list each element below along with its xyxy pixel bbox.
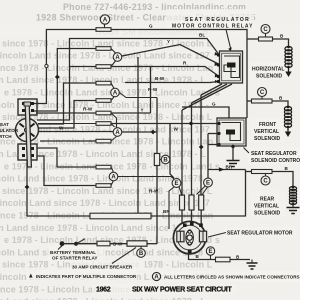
svg-text:B-W: B-W [155,76,165,81]
svg-text:SEAT REGULATOR: SEAT REGULATOR [185,17,250,23]
svg-text:Y: Y [141,108,144,113]
svg-text:A: A [103,18,108,24]
svg-text:SEAT REGULATOR MOTOR: SEAT REGULATOR MOTOR [227,231,293,237]
svg-text:W: W [59,126,64,131]
svg-text:SOLENOID CONTROL RELAY: SOLENOID CONTROL RELAY [251,158,300,164]
svg-text:OF STARTER RELAY: OF STARTER RELAY [52,256,97,261]
svg-text:FRONT: FRONT [259,122,276,128]
svg-text:E: E [208,249,212,255]
svg-text:30 AMP CIRCUIT BREAKER: 30 AMP CIRCUIT BREAKER [72,264,133,269]
svg-text:REAR: REAR [260,197,275,203]
svg-text:Lincoln Land since 1978 - Linc: Lincoln Land since 1978 - Lincoln Land s… [0,198,210,208]
svg-text:VERTICAL: VERTICAL [254,204,279,210]
svg-text:G: G [212,102,216,107]
svg-text:SOLENOID: SOLENOID [254,211,281,217]
svg-text:SOLENOID: SOLENOID [254,136,281,142]
svg-text:A: A [111,175,116,181]
svg-text:SEAT: SEAT [0,122,9,127]
svg-text:1962: 1962 [96,286,111,293]
svg-text:R-W: R-W [149,188,159,193]
svg-text:A: A [115,55,120,61]
svg-text:BL: BL [199,33,205,38]
svg-text:A: A [113,91,118,97]
svg-text:C: C [260,90,265,96]
svg-text:REGULATOR: REGULATOR [0,128,19,133]
svg-text:oln Land since 1978 - Lincoln: oln Land since 1978 - Lincoln Land since… [0,297,206,300]
svg-text:C: C [263,27,268,33]
svg-text:INDICATES PART OF MULTIPLE CON: INDICATES PART OF MULTIPLE CONNECTOR [36,274,137,279]
svg-text:VERTICAL: VERTICAL [254,129,279,135]
svg-text:W: W [174,126,179,131]
svg-text:E: E [206,181,210,187]
svg-text:SEAT REGULATOR: SEAT REGULATOR [251,151,297,157]
svg-text:SWITCH: SWITCH [0,134,12,139]
svg-text:Y: Y [167,39,170,44]
svg-text:B: B [139,251,144,257]
svg-text:SOLENOID: SOLENOID [256,74,283,80]
svg-text:MOTOR CONTROL RELAY: MOTOR CONTROL RELAY [172,24,253,30]
svg-text:E: E [174,181,178,187]
svg-text:A: A [154,275,159,281]
svg-text:B: B [163,158,168,164]
svg-text:Lincoln Land since 1978 - Linc: Lincoln Land since 1978 - Lincoln Land s… [0,51,210,61]
svg-text:SIX WAY POWER SEAT CIRCUIT: SIX WAY POWER SEAT CIRCUIT [132,286,232,293]
svg-text:R-W: R-W [148,87,158,92]
svg-text:A: A [115,130,120,136]
svg-text:BATTERY TERMINAL: BATTERY TERMINAL [50,250,96,255]
svg-text:R-W: R-W [83,107,93,112]
svg-text:HORIZONTAL: HORIZONTAL [252,67,284,73]
svg-text:G: G [149,24,153,29]
svg-text:C: C [263,179,268,185]
svg-text:ALL LETTERS CIRCLED AS SHOWN I: ALL LETTERS CIRCLED AS SHOWN INDICATE CO… [164,274,300,279]
